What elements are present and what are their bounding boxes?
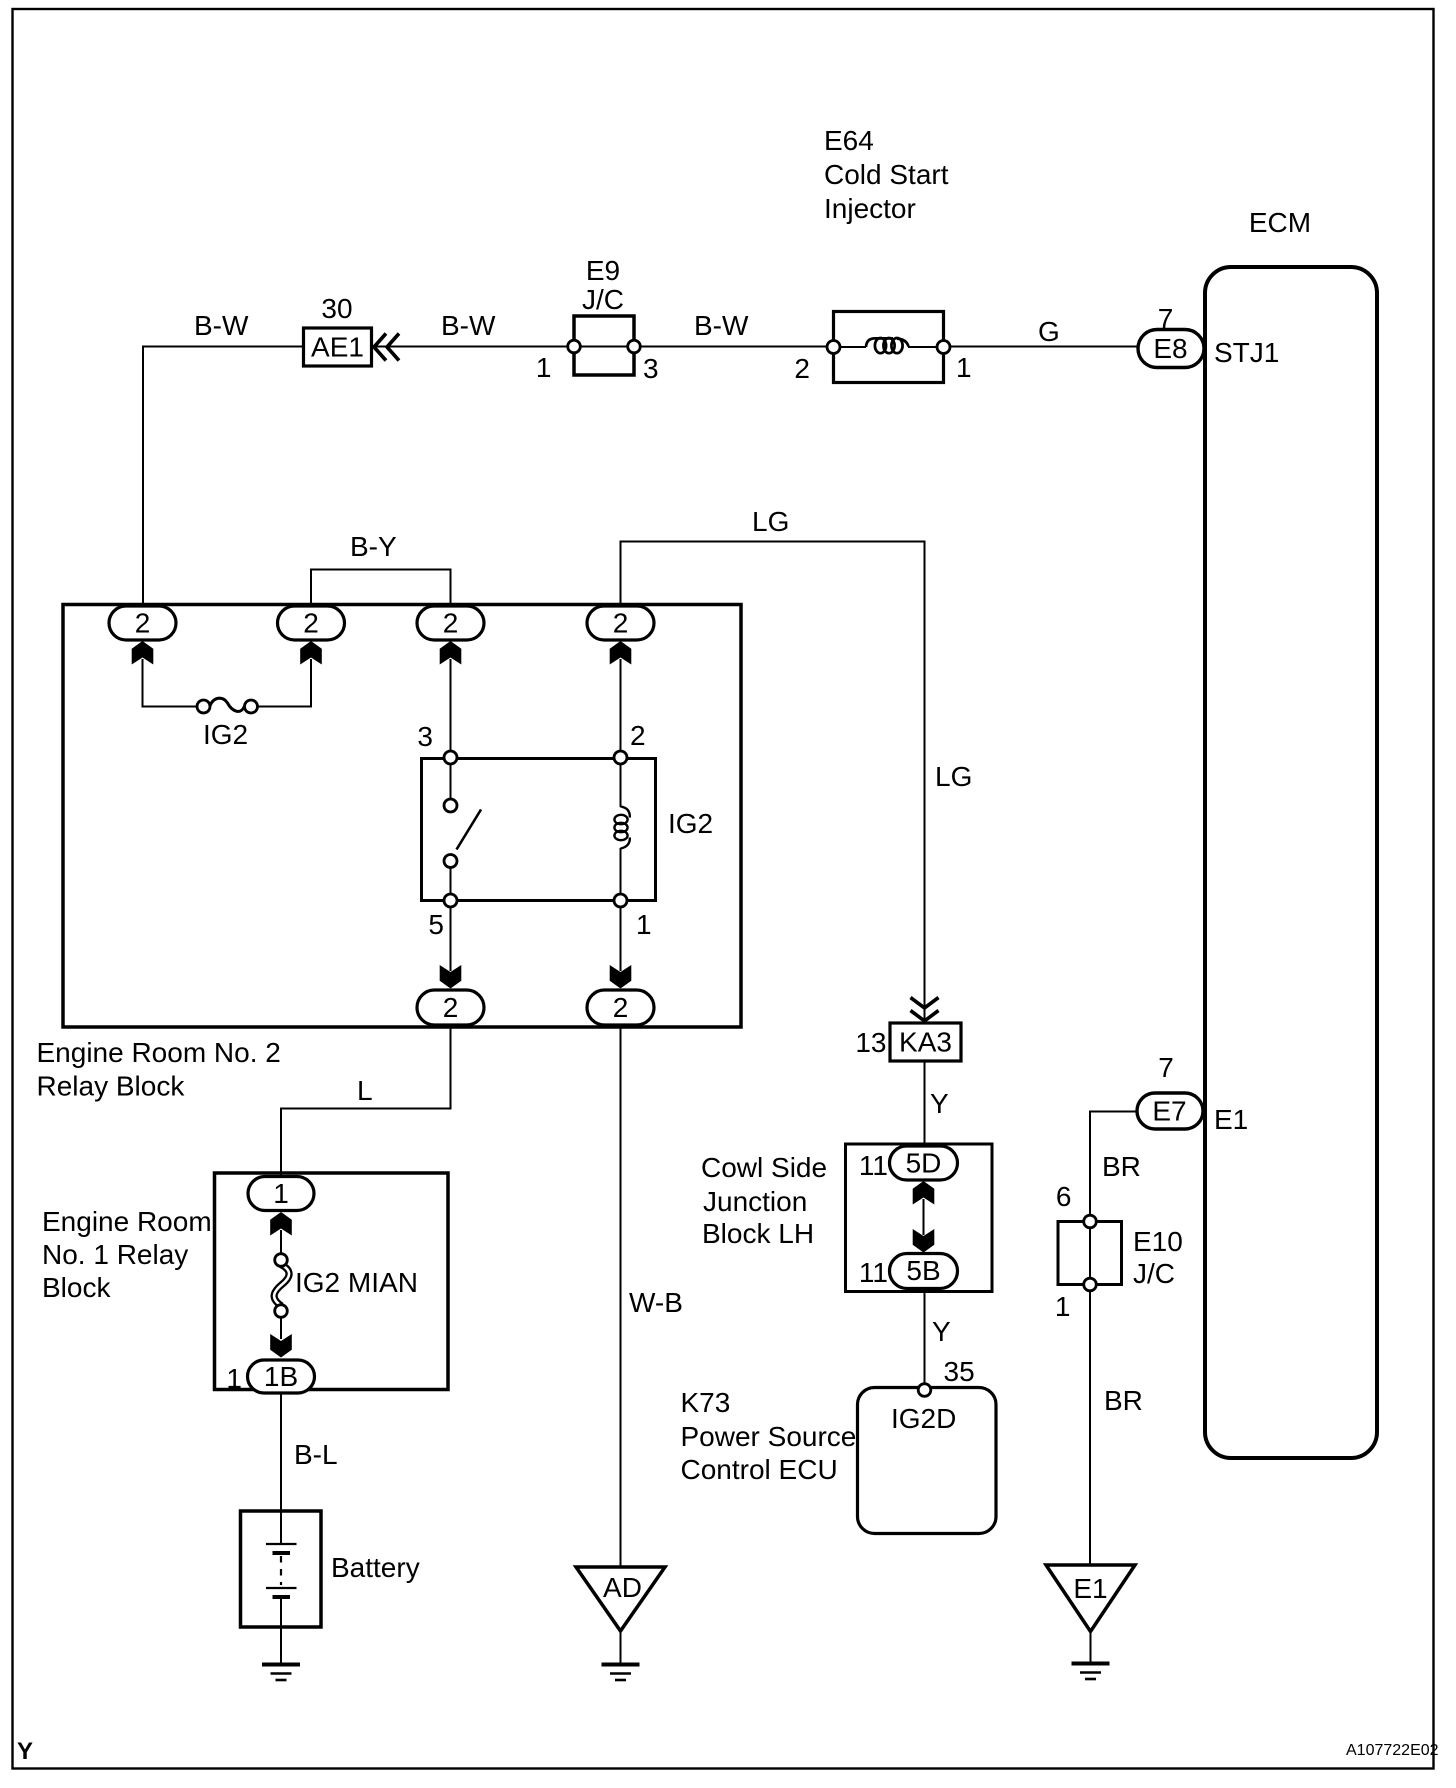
svg-text:K73: K73 bbox=[681, 1387, 731, 1418]
connector 2 (bottom 1) bbox=[417, 990, 484, 1025]
pin 2 of injector bbox=[827, 341, 840, 354]
svg-text:11: 11 bbox=[859, 1257, 888, 1288]
relay pin 2 bbox=[614, 751, 627, 764]
svg-text:2: 2 bbox=[794, 353, 810, 384]
Engine Room No.1 Relay Block box bbox=[215, 1173, 449, 1390]
connector 2 (top 3) bbox=[417, 606, 484, 640]
pin 1 of E10 bbox=[1084, 1278, 1097, 1291]
svg-text:3: 3 bbox=[417, 721, 433, 752]
svg-text:IG2D: IG2D bbox=[891, 1403, 956, 1434]
svg-text:Cold Start: Cold Start bbox=[824, 159, 949, 190]
svg-text:ECM: ECM bbox=[1249, 207, 1311, 238]
arrow into connector bbox=[440, 641, 462, 665]
svg-text:Battery: Battery bbox=[331, 1552, 420, 1583]
wire W-B bbox=[620, 1025, 622, 1566]
fuse IG2 bbox=[210, 698, 245, 711]
wire LG from relay block to KA3 bbox=[621, 542, 925, 1024]
svg-text:Cowl Side: Cowl Side bbox=[701, 1152, 827, 1183]
wire B-L bbox=[280, 1393, 282, 1511]
fuse AE1 bbox=[304, 328, 372, 366]
connector 2 (top 2) bbox=[278, 606, 345, 640]
arrow into connector bbox=[300, 641, 322, 665]
junction connector E9 bbox=[574, 316, 634, 375]
svg-text:E64: E64 bbox=[824, 125, 874, 156]
wire Y from KA3 bbox=[924, 1061, 926, 1146]
wire E1 to ground bbox=[1090, 1632, 1092, 1663]
label E64 Cold Start Injector bbox=[824, 125, 949, 224]
svg-text:J/C: J/C bbox=[582, 284, 624, 315]
relay IG2 box bbox=[422, 759, 656, 901]
svg-text:Junction: Junction bbox=[703, 1186, 807, 1217]
svg-text:13: 13 bbox=[855, 1027, 886, 1058]
svg-text:1: 1 bbox=[273, 1178, 289, 1209]
svg-text:5: 5 bbox=[428, 909, 444, 940]
wire inside E10 bbox=[1089, 1227, 1091, 1279]
svg-text:L: L bbox=[357, 1075, 373, 1106]
wire Y from 5B to IG2D bbox=[924, 1289, 926, 1385]
svg-text:B-W: B-W bbox=[194, 310, 249, 341]
Engine Room No.2 Relay Block box bbox=[63, 605, 741, 1028]
connector 5D bbox=[890, 1146, 958, 1180]
arrow into connector 1B bbox=[270, 1334, 292, 1358]
svg-text:2: 2 bbox=[613, 608, 629, 639]
wire to 1B bbox=[280, 1317, 282, 1339]
wire switch to pin 5 bbox=[450, 868, 452, 895]
pin 6 of E10 bbox=[1084, 1215, 1097, 1228]
relay coil wire bottom bbox=[620, 848, 622, 894]
wire B-Y between pins bbox=[311, 570, 451, 607]
svg-text:Power Source: Power Source bbox=[681, 1421, 857, 1452]
wire inside injector bbox=[839, 346, 866, 348]
ECM box U1 bbox=[1205, 267, 1377, 1458]
wire from fuse IG2 bbox=[258, 659, 312, 707]
svg-text:5B: 5B bbox=[906, 1255, 940, 1286]
svg-text:KA3: KA3 bbox=[899, 1027, 952, 1058]
svg-text:E9: E9 bbox=[586, 255, 620, 286]
relay coil wire top bbox=[620, 764, 622, 807]
svg-text:BR: BR bbox=[1102, 1151, 1141, 1182]
svg-text:2: 2 bbox=[613, 992, 629, 1023]
svg-text:2: 2 bbox=[443, 608, 459, 639]
relay pin 5 bbox=[444, 894, 457, 907]
battery BT1 bbox=[241, 1511, 322, 1627]
relay pin 3 bbox=[444, 751, 457, 764]
chevron arrows into KA3 bbox=[911, 998, 939, 1009]
cold start injector E64 bbox=[834, 312, 944, 383]
arrow into connector bbox=[132, 641, 154, 665]
ground (AD) bbox=[602, 1665, 640, 1681]
svg-text:A107722E02: A107722E02 bbox=[1346, 1742, 1439, 1759]
svg-text:G: G bbox=[1038, 316, 1060, 347]
svg-text:3: 3 bbox=[643, 353, 659, 384]
svg-text:1: 1 bbox=[636, 909, 652, 940]
svg-text:B-Y: B-Y bbox=[350, 531, 397, 562]
arrow into connector bbox=[610, 641, 632, 665]
wire battery to ground bbox=[280, 1627, 282, 1663]
wire L bbox=[281, 1025, 451, 1177]
chevron arrows into AE1 bbox=[374, 334, 386, 361]
fusible link IG2 MAIN bbox=[274, 1265, 289, 1307]
relay pin 1 bbox=[614, 894, 627, 907]
svg-text:BR: BR bbox=[1104, 1385, 1143, 1416]
pin 1 of E9 bbox=[568, 340, 581, 353]
svg-text:1: 1 bbox=[226, 1363, 242, 1394]
svg-text:Control ECU: Control ECU bbox=[681, 1454, 838, 1485]
svg-text:11: 11 bbox=[859, 1150, 888, 1181]
svg-text:E1: E1 bbox=[1214, 1104, 1248, 1135]
switch contact wire bbox=[450, 764, 452, 799]
svg-text:2: 2 bbox=[303, 608, 319, 639]
pin 3 of E9 bbox=[628, 340, 641, 353]
svg-text:5D: 5D bbox=[906, 1148, 942, 1179]
relay coil bbox=[614, 807, 629, 849]
svg-text:E7: E7 bbox=[1152, 1096, 1186, 1127]
arrow into bottom connector bbox=[610, 965, 632, 989]
svg-text:B-W: B-W bbox=[441, 310, 496, 341]
svg-text:2: 2 bbox=[135, 608, 151, 639]
svg-text:E8: E8 bbox=[1153, 333, 1187, 364]
junction connector E10 bbox=[1058, 1222, 1122, 1285]
svg-text:LG: LG bbox=[935, 761, 972, 792]
svg-text:Block: Block bbox=[42, 1272, 111, 1303]
connector 1 (top) bbox=[248, 1177, 314, 1211]
connector 1B bbox=[248, 1360, 315, 1393]
wire AD to ground bbox=[620, 1631, 622, 1663]
wire to fuse IG2 bbox=[143, 659, 198, 707]
svg-text:LG: LG bbox=[752, 506, 789, 537]
svg-text:W-B: W-B bbox=[629, 1287, 683, 1318]
injector coil L1 bbox=[866, 338, 909, 353]
svg-text:1: 1 bbox=[536, 352, 552, 383]
wire G from injector to E8 bbox=[950, 346, 1139, 348]
connector 5B bbox=[890, 1254, 958, 1289]
svg-text:IG2 MIAN: IG2 MIAN bbox=[295, 1267, 418, 1298]
ground triangle AD bbox=[576, 1567, 665, 1631]
svg-text:30: 30 bbox=[321, 293, 352, 324]
ground (E1) bbox=[1072, 1664, 1110, 1680]
svg-text:J/C: J/C bbox=[1133, 1258, 1175, 1289]
pin 1 of injector bbox=[937, 341, 950, 354]
svg-text:6: 6 bbox=[1056, 1181, 1072, 1212]
switch S1 bbox=[457, 810, 482, 850]
wire inside E9 bbox=[578, 346, 630, 348]
wire B-W from AE1 to E9 bbox=[376, 346, 567, 348]
K73 Power Source Control ECU box bbox=[858, 1388, 997, 1534]
svg-text:Injector: Injector bbox=[824, 193, 916, 224]
svg-text:Y: Y bbox=[930, 1088, 949, 1119]
svg-text:2: 2 bbox=[443, 992, 459, 1023]
svg-text:E1: E1 bbox=[1073, 1573, 1107, 1604]
svg-text:AE1: AE1 bbox=[311, 332, 364, 363]
svg-text:No. 1 Relay: No. 1 Relay bbox=[42, 1239, 188, 1270]
svg-text:STJ1: STJ1 bbox=[1214, 337, 1279, 368]
connector 2 (top 1) bbox=[109, 606, 176, 640]
svg-text:B-L: B-L bbox=[294, 1439, 338, 1470]
svg-text:1: 1 bbox=[956, 352, 972, 383]
svg-text:Y: Y bbox=[932, 1316, 951, 1347]
arrow down into 5B bbox=[913, 1229, 935, 1253]
connector E7 bbox=[1137, 1093, 1203, 1129]
wire pin5 down bbox=[450, 907, 452, 971]
Cowl Side Junction Block box bbox=[846, 1144, 993, 1292]
svg-text:1B: 1B bbox=[264, 1361, 298, 1392]
connector 2 (bottom 2) bbox=[587, 990, 654, 1025]
connector E8 bbox=[1138, 330, 1204, 368]
svg-text:35: 35 bbox=[944, 1356, 975, 1387]
arrow up into 5D bbox=[913, 1181, 935, 1205]
svg-text:IG2: IG2 bbox=[203, 719, 248, 750]
svg-text:AD: AD bbox=[603, 1572, 642, 1603]
svg-text:7: 7 bbox=[1158, 1052, 1174, 1083]
wire B-W from E9 to injector bbox=[641, 346, 827, 348]
wire pin1 down bbox=[620, 907, 622, 971]
arrow into connector 1 bbox=[270, 1212, 292, 1236]
svg-text:2: 2 bbox=[630, 720, 646, 751]
svg-text:IG2: IG2 bbox=[668, 808, 713, 839]
arrow into bottom connector bbox=[440, 965, 462, 989]
wire between arrows bbox=[923, 1199, 925, 1235]
svg-text:Engine Room: Engine Room bbox=[42, 1206, 212, 1237]
wire to fusible link bbox=[280, 1230, 282, 1254]
svg-text:1: 1 bbox=[1055, 1291, 1071, 1322]
wire B-W from corner to AE1 bbox=[143, 347, 302, 607]
wire BR from E7 to E10 bbox=[1090, 1112, 1137, 1217]
pin 35 of K73 bbox=[918, 1384, 931, 1397]
svg-text:Engine Room No. 2: Engine Room No. 2 bbox=[37, 1037, 281, 1068]
svg-text:E10: E10 bbox=[1133, 1226, 1183, 1257]
connector KA3 bbox=[890, 1023, 961, 1061]
ground (battery) bbox=[262, 1665, 300, 1681]
svg-text:B-W: B-W bbox=[694, 310, 749, 341]
wire pin2-top3 to relay bbox=[450, 659, 452, 751]
wire BR from E10 to E1 bbox=[1089, 1291, 1091, 1565]
wire pin2-top4 to relay bbox=[620, 659, 622, 751]
ground triangle E1 bbox=[1046, 1565, 1135, 1632]
svg-text:Y: Y bbox=[17, 1738, 33, 1765]
svg-text:Block LH: Block LH bbox=[702, 1218, 814, 1249]
svg-text:Relay Block: Relay Block bbox=[37, 1071, 186, 1102]
connector 2 (top 4) bbox=[587, 606, 654, 640]
